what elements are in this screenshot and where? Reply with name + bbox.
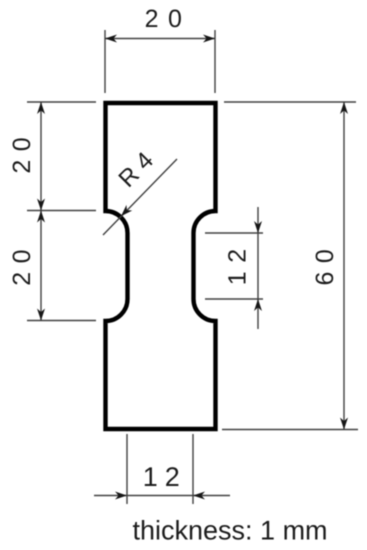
svg-text:20: 20: [8, 129, 36, 174]
dimension 12 right: text: [223, 240, 251, 285]
left dimensions: extension line at notch top: [27, 210, 96, 212]
dimension 12 right: top arrow: [254, 221, 262, 233]
dimension 60 right: extension line bottom: [222, 429, 358, 431]
dimension 12 right: extension line bottom: [205, 298, 263, 300]
left dimension 20 upper: bottom arrow: [37, 199, 45, 211]
dimension 12 bottom: right arrow: [193, 492, 205, 500]
dimension 12 right: bottom arrow: [254, 299, 262, 311]
dimension 12 bottom: dimension line: [94, 495, 230, 497]
left dimensions: extension line at notch bottom: [27, 320, 96, 322]
dimension 20 top: left arrow: [105, 35, 117, 43]
dimension 12 bottom: extension line right: [192, 434, 194, 504]
svg-text:12: 12: [223, 240, 251, 285]
dimension 20 top: text: [145, 5, 192, 33]
radius leader line R4: [103, 159, 177, 235]
left dimension 20 lower: top arrow: [37, 211, 45, 223]
dimension 60 right: top arrow: [340, 102, 348, 114]
svg-text:12: 12: [143, 462, 187, 492]
dimension 12 right: dimension line: [257, 207, 259, 329]
svg-text:60: 60: [311, 241, 339, 286]
left dimensions: dimension line: [40, 102, 42, 321]
note: thickness: [133, 516, 328, 546]
dimension 20 top: extension line left: [104, 30, 106, 93]
dimension 20 top: right arrow: [203, 35, 215, 43]
dimension 12 bottom: left arrow: [115, 492, 127, 500]
svg-text:20: 20: [145, 5, 192, 33]
dimension 60 right: bottom arrow: [340, 418, 348, 430]
left dimension 20 lower: bottom arrow: [37, 309, 45, 321]
left dimensions: extension line at top edge: [27, 101, 96, 103]
dimension 20 top: dimension line: [105, 38, 215, 40]
dimension 12 bottom: text: [143, 462, 187, 492]
svg-text:thickness: 1 mm: thickness: 1 mm: [133, 516, 328, 546]
dimension 20 top: extension line right: [214, 30, 216, 93]
svg-text:20: 20: [8, 241, 36, 286]
left dimension 20 lower: text: [8, 241, 36, 286]
dimension 60 right: text: [311, 241, 339, 286]
dimension 60 right: extension line top: [224, 101, 356, 103]
dimension 60 right: dimension line: [343, 102, 345, 430]
left dimension 20 upper: top arrow: [37, 102, 45, 114]
specimen outline: [106, 103, 216, 429]
left dimension 20 upper: text: [8, 129, 36, 174]
dimension 12 bottom: extension line left: [126, 434, 128, 504]
radius leader arrow: [118, 205, 132, 219]
dimension 12 right: extension line top: [205, 232, 263, 234]
radius label R 4: [114, 147, 159, 193]
